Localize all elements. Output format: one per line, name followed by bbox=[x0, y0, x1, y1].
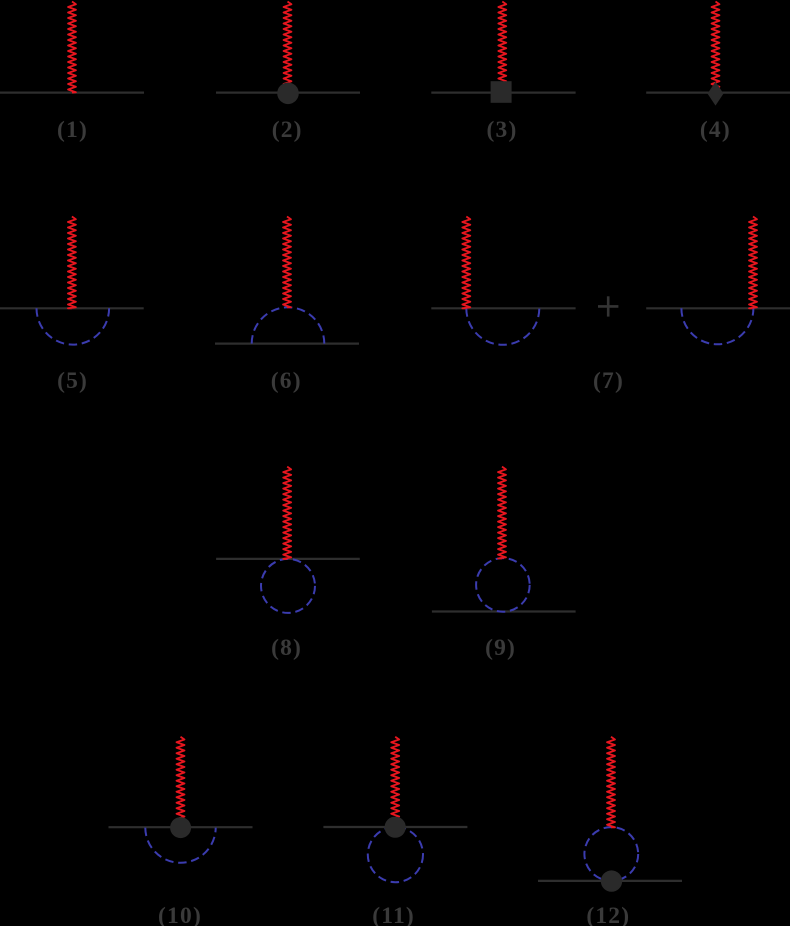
svg-text:(6): (6) bbox=[271, 368, 302, 394]
svg-text:(8): (8) bbox=[271, 635, 302, 661]
svg-text:(10): (10) bbox=[158, 903, 202, 926]
svg-text:(4): (4) bbox=[700, 117, 731, 143]
svg-text:(5): (5) bbox=[57, 368, 88, 394]
svg-text:(2): (2) bbox=[272, 117, 303, 143]
svg-text:(11): (11) bbox=[372, 903, 415, 926]
svg-text:(7): (7) bbox=[593, 368, 624, 394]
svg-text:(9): (9) bbox=[485, 635, 516, 661]
svg-text:(1): (1) bbox=[57, 117, 88, 143]
svg-text:(3): (3) bbox=[486, 117, 517, 143]
svg-text:(12): (12) bbox=[586, 903, 630, 926]
